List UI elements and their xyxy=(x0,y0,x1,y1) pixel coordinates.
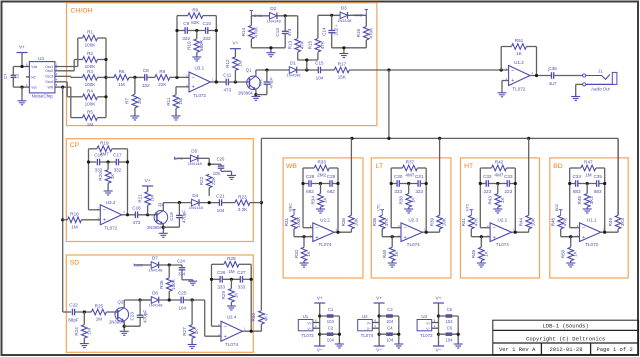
svg-text:HT: HT xyxy=(464,163,473,170)
ground (U1) xyxy=(335,344,344,348)
IC U4 NoiseChip xyxy=(29,56,55,98)
svg-text:TL072: TL072 xyxy=(585,242,598,247)
svg-text:R30: R30 xyxy=(251,313,256,322)
svg-text:+: + xyxy=(404,235,407,241)
wire R13 R15 bottoms xyxy=(298,52,318,70)
svg-text:WB: WB xyxy=(286,163,297,170)
svg-text:U2: U2 xyxy=(362,314,368,319)
svg-text:1N4148: 1N4148 xyxy=(148,268,163,273)
svg-text:U1: U1 xyxy=(303,314,309,319)
diode D1 1N4148 xyxy=(286,60,301,77)
resistor R50 xyxy=(561,237,578,263)
svg-text:Ver 1 Rev A: Ver 1 Rev A xyxy=(499,346,536,353)
wire Vss rail xyxy=(13,77,24,87)
ground (R45) xyxy=(477,263,486,267)
svg-text:C1: C1 xyxy=(328,307,334,312)
svg-text:15K: 15K xyxy=(338,75,347,80)
svg-text:−: − xyxy=(224,324,227,330)
resistor R12 xyxy=(225,49,242,82)
wire Osc2 to R2 xyxy=(58,60,83,71)
svg-text:LT: LT xyxy=(376,163,383,170)
svg-text:68pF: 68pF xyxy=(68,317,79,322)
svg-text:332: 332 xyxy=(114,167,122,172)
svg-text:3K3: 3K3 xyxy=(589,196,594,205)
wire R23 to bus xyxy=(250,202,262,204)
svg-text:100K: 100K xyxy=(85,43,97,48)
svg-text:C22: C22 xyxy=(69,303,78,308)
svg-text:R19: R19 xyxy=(100,140,109,145)
wire U3.1 noninverting to R11 xyxy=(176,87,189,95)
svg-text:R28: R28 xyxy=(227,256,236,261)
svg-text:1K: 1K xyxy=(394,250,399,257)
svg-text:CH/OH: CH/OH xyxy=(71,8,93,15)
svg-text:V−: V− xyxy=(376,347,382,353)
svg-text:104: 104 xyxy=(386,337,394,342)
capacitor C19 xyxy=(169,203,187,228)
svg-text:104: 104 xyxy=(446,319,454,324)
diode D5 1N4148 xyxy=(188,149,203,166)
svg-text:104: 104 xyxy=(327,319,335,324)
wire R6 to C8 xyxy=(129,76,145,78)
svg-text:R2: R2 xyxy=(87,51,93,56)
V- symbol (U1) xyxy=(314,346,325,353)
resistor R40 xyxy=(382,237,399,263)
junction noise line CP tap xyxy=(61,218,64,221)
wire J1 sleeve to ground xyxy=(576,84,583,96)
svg-text:LTC: LTC xyxy=(377,204,381,211)
V- symbol (U3) xyxy=(433,346,444,353)
svg-text:22K: 22K xyxy=(211,176,216,185)
svg-text:Page 1 of 2: Page 1 of 2 xyxy=(596,346,632,353)
wire D2 bottom row xyxy=(251,48,285,53)
svg-text:C16: C16 xyxy=(94,153,103,158)
svg-text:R25: R25 xyxy=(95,304,104,309)
svg-text:R10: R10 xyxy=(187,41,192,50)
wire D1 to C15 node xyxy=(297,69,318,71)
svg-text:R14: R14 xyxy=(241,28,246,37)
svg-text:+: + xyxy=(582,235,585,241)
wire C27 right xyxy=(243,278,252,280)
svg-text:R47: R47 xyxy=(584,160,593,165)
svg-text:U3: U3 xyxy=(421,314,427,319)
svg-text:C9: C9 xyxy=(183,21,189,26)
junction U1 gnd rail xyxy=(338,333,341,336)
junction R10 tap xyxy=(195,29,198,32)
svg-text:R27: R27 xyxy=(182,327,187,336)
capacitor C14 (2u2) xyxy=(322,15,339,48)
transistor Q1 2N3904 xyxy=(238,68,260,96)
capacitor C28 xyxy=(306,174,315,194)
svg-text:V+: V+ xyxy=(367,322,371,326)
svg-text:C12: C12 xyxy=(257,78,262,86)
capacitor C27 xyxy=(237,270,246,290)
svg-text:1K: 1K xyxy=(411,197,416,204)
wire Q3 collector xyxy=(124,300,151,308)
svg-text:TL072: TL072 xyxy=(104,226,117,231)
junction R22 top xyxy=(208,163,211,166)
resistor R46 xyxy=(551,215,568,236)
ground (C20) xyxy=(227,175,236,179)
capacitor C13 xyxy=(275,16,292,48)
ground (R11) xyxy=(172,116,181,120)
junction R32 tap xyxy=(302,235,305,238)
resistor R43 xyxy=(488,184,505,210)
capacitor C29 xyxy=(327,174,336,194)
svg-text:104: 104 xyxy=(316,75,324,80)
svg-text:U2.1: U2.1 xyxy=(497,218,507,223)
svg-text:R37: R37 xyxy=(406,160,415,165)
junction R50 tap xyxy=(569,235,572,238)
svg-text:TL074: TL074 xyxy=(225,342,238,347)
svg-text:Q1: Q1 xyxy=(246,68,252,73)
junction bus LT xyxy=(438,137,441,140)
wire C9 to C10 xyxy=(188,30,206,32)
svg-text:C6: C6 xyxy=(447,325,453,330)
wire R8 to U3.1 xyxy=(170,76,189,78)
ground (D2 branch) xyxy=(266,53,275,57)
capacitor C25 xyxy=(178,291,187,311)
diode D3 1N4148 xyxy=(337,6,352,23)
svg-text:R35: R35 xyxy=(341,217,346,226)
svg-text:105: 105 xyxy=(213,171,221,176)
ground (noise chip) xyxy=(18,101,27,105)
resistor R28 xyxy=(224,256,239,274)
svg-text:3.3K: 3.3K xyxy=(238,207,248,212)
svg-text:R39: R39 xyxy=(429,217,434,226)
transistor Q3 2N3904 xyxy=(109,299,129,324)
svg-text:C7: C7 xyxy=(3,73,8,79)
ground (R32) xyxy=(300,263,309,267)
junction U1.2 output xyxy=(535,74,538,77)
junction D3 gnd xyxy=(342,46,345,49)
wire D7 to C24 xyxy=(159,264,182,266)
junction U3.1 output rail xyxy=(215,80,218,83)
svg-text:473: 473 xyxy=(223,87,231,92)
wire C8 to R8 xyxy=(147,76,155,78)
op-amp U3.1 xyxy=(186,66,214,98)
net stub OHC xyxy=(250,11,263,19)
junction R45 tap xyxy=(480,235,483,238)
wire U1 decoupling rungs xyxy=(320,316,340,344)
junction U2 V- branch xyxy=(378,333,381,336)
svg-text:1M: 1M xyxy=(228,269,235,274)
resistor R4 xyxy=(83,89,98,107)
ground (U1.2) xyxy=(498,93,507,97)
wire U2.1 feedback rails xyxy=(480,168,515,232)
wire C17 right xyxy=(119,161,128,163)
svg-text:R31: R31 xyxy=(284,217,289,226)
wire R9 to right rail xyxy=(203,16,217,82)
svg-text:1K: 1K xyxy=(483,250,488,257)
svg-text:V−: V− xyxy=(308,327,312,331)
wire U1 power rail xyxy=(319,303,321,346)
capacitor C20 xyxy=(213,156,232,176)
wire U2.3 feedback rails xyxy=(391,168,426,232)
junction U2.3 output rail xyxy=(425,231,428,234)
resistor R13 xyxy=(288,39,305,53)
resistor R23 xyxy=(235,194,250,212)
resistor R29 xyxy=(221,279,238,306)
svg-text:NC: NC xyxy=(31,75,36,79)
svg-text:1M: 1M xyxy=(118,82,125,87)
svg-text:+: + xyxy=(315,235,318,241)
svg-text:R42: R42 xyxy=(495,160,504,165)
svg-text:Osc3: Osc3 xyxy=(45,75,53,79)
wire C36 to J1 xyxy=(554,75,582,77)
wire Q3 emitter to ground xyxy=(123,321,125,331)
net stub BDC xyxy=(555,203,562,215)
wire D4 to C21 xyxy=(199,202,219,204)
svg-text:C13: C13 xyxy=(275,28,280,37)
junction bus CP xyxy=(260,201,263,204)
junction Q1 emitter C12 xyxy=(254,93,257,96)
svg-text:1M: 1M xyxy=(87,122,94,127)
junction U1.2 input xyxy=(500,68,503,71)
capacitor C4 xyxy=(386,325,394,342)
wire Q2 emitter to ground xyxy=(162,224,164,233)
junction U2.3 rail0 caps xyxy=(390,182,393,185)
svg-text:C33: C33 xyxy=(504,174,513,179)
svg-text:TL074: TL074 xyxy=(361,333,374,338)
capacitor C33 xyxy=(504,174,513,194)
junction R22 bottom xyxy=(208,201,211,204)
svg-text:Audio Out: Audio Out xyxy=(591,86,610,91)
ground (R38) xyxy=(404,209,413,213)
svg-text:4K7: 4K7 xyxy=(263,313,268,322)
junction rail C17 xyxy=(126,160,129,163)
capacitor C18 xyxy=(132,206,141,226)
junction D1 node xyxy=(305,68,308,71)
connector J1 Audio Out xyxy=(583,68,617,91)
capacitor C24 xyxy=(177,258,193,281)
resistor R16 xyxy=(356,15,373,48)
svg-text:R7: R7 xyxy=(125,98,130,104)
svg-text:−: − xyxy=(315,225,318,231)
svg-text:104: 104 xyxy=(178,305,186,310)
capacitor C17 xyxy=(113,153,122,173)
wire R17 to mixer xyxy=(349,69,508,71)
svg-text:C29: C29 xyxy=(327,174,336,179)
junction V+ Vdd xyxy=(20,65,23,68)
junction U1.1 output rail xyxy=(603,231,606,234)
junction C23 tap xyxy=(139,298,142,301)
svg-text:D1: D1 xyxy=(290,60,296,65)
resistor R30 xyxy=(251,311,268,325)
net stub HTC xyxy=(466,203,473,215)
resistor R5 xyxy=(83,109,98,127)
wire U3.2 feedback left rail xyxy=(89,149,101,210)
wire R15 top rail xyxy=(318,15,340,38)
svg-text:333: 333 xyxy=(238,285,246,290)
svg-text:2u2: 2u2 xyxy=(334,27,339,35)
junction right rail C10 xyxy=(215,29,218,32)
svg-text:Copyright (C) Deltronics: Copyright (C) Deltronics xyxy=(526,335,605,342)
V+ symbol (noise chip) xyxy=(17,45,28,53)
svg-text:470K: 470K xyxy=(253,26,258,38)
wire ladder bus xyxy=(98,38,107,118)
wire U2.1 output xyxy=(512,231,529,233)
svg-text:D7: D7 xyxy=(152,255,158,260)
capacitor C2 xyxy=(327,325,335,342)
svg-text:470K: 470K xyxy=(368,27,373,39)
wire mixer feedback rail xyxy=(501,47,536,76)
diode D6 1N4148 xyxy=(148,290,163,307)
junction U2.3 rail1 caps xyxy=(425,182,428,185)
junction bus HT xyxy=(527,137,530,140)
resistor R24 xyxy=(74,312,91,344)
svg-text:1K: 1K xyxy=(306,250,311,257)
ground (R20) xyxy=(104,191,113,195)
svg-text:−: − xyxy=(404,225,407,231)
svg-text:C24: C24 xyxy=(177,258,185,263)
wire U2 power rail xyxy=(378,303,380,346)
svg-text:C35: C35 xyxy=(593,174,602,179)
svg-text:R45: R45 xyxy=(471,249,476,258)
svg-text:R9: R9 xyxy=(192,7,198,12)
svg-text:SD: SD xyxy=(70,260,80,267)
resistor R38 xyxy=(399,184,416,210)
junction U1.1 rail0 caps xyxy=(568,182,571,185)
junction left rail C9 xyxy=(175,29,178,32)
svg-text:1K: 1K xyxy=(500,197,505,204)
svg-text:V+: V+ xyxy=(435,295,441,301)
wire C26 C27 xyxy=(222,278,240,280)
svg-text:TL072: TL072 xyxy=(193,93,206,98)
svg-text:Osc2: Osc2 xyxy=(45,69,53,73)
wire U2.4 output xyxy=(242,324,261,331)
wire U2.3 output xyxy=(422,231,439,233)
svg-text:1N4148: 1N4148 xyxy=(148,303,163,308)
junction ladder bus R3 xyxy=(104,76,107,79)
junction R24 tap xyxy=(83,310,86,313)
svg-text:1M: 1M xyxy=(86,328,91,335)
wire D2 to R13 rail xyxy=(277,16,298,38)
ground (Q1) xyxy=(251,96,260,100)
op-amp U3.2 xyxy=(97,200,125,231)
resistor R32 xyxy=(294,237,311,263)
ground (J1) xyxy=(571,97,580,101)
svg-text:C11: C11 xyxy=(223,73,232,78)
capacitor C35 xyxy=(593,174,602,194)
capacitor C7 xyxy=(3,73,20,79)
svg-text:47K: 47K xyxy=(320,40,325,49)
svg-text:CP: CP xyxy=(70,142,80,149)
junction U2.4 output rail xyxy=(250,330,253,333)
V- symbol (U2) xyxy=(374,346,385,353)
junction U1 V- branch xyxy=(318,333,321,336)
svg-text:R38: R38 xyxy=(399,196,404,205)
junction bus WB xyxy=(350,137,353,140)
junction C19 tap xyxy=(178,201,181,204)
resistor R3 xyxy=(83,69,98,87)
ground (R50) xyxy=(566,263,575,267)
svg-text:1K: 1K xyxy=(194,328,199,335)
junction C14 tap xyxy=(330,14,333,17)
svg-text:Vdd: Vdd xyxy=(31,65,37,69)
section box SD xyxy=(66,255,253,352)
net stub WBC xyxy=(288,203,295,215)
svg-text:TL072: TL072 xyxy=(301,333,314,338)
wire R25 to Q3 base xyxy=(106,311,117,313)
V+ symbol (U1) xyxy=(314,295,325,303)
svg-text:C32: C32 xyxy=(483,174,492,179)
junction D2 gnd xyxy=(269,46,272,49)
junction R13 R15 bottom xyxy=(305,58,308,61)
junction right rail caps xyxy=(250,278,253,281)
capacitor C36 (4u7) xyxy=(547,66,557,86)
svg-text:1M: 1M xyxy=(137,98,142,105)
svg-text:1N4148: 1N4148 xyxy=(337,18,352,23)
svg-text:C19: C19 xyxy=(169,212,174,221)
junction R26 top xyxy=(168,263,171,266)
svg-text:R29: R29 xyxy=(221,291,226,300)
junction U3.2 output rail xyxy=(126,213,129,216)
junction U3.1 inverting input xyxy=(175,76,178,79)
junction U1.1 R-mid tap xyxy=(586,182,589,185)
wire U2.4 feedback left rail xyxy=(212,264,224,326)
op-amp U1.1 xyxy=(577,218,605,247)
ground (R48) xyxy=(583,209,592,213)
svg-text:332: 332 xyxy=(95,167,103,172)
svg-text:560R: 560R xyxy=(199,39,204,51)
svg-text:C21: C21 xyxy=(216,193,225,198)
junction U1.1 rail1 caps xyxy=(603,182,606,185)
ground (U3) xyxy=(454,344,463,348)
capacitor C31 xyxy=(415,174,424,194)
resistor R33 xyxy=(314,160,329,178)
svg-text:Q3: Q3 xyxy=(118,299,124,304)
svg-text:R33: R33 xyxy=(317,160,326,165)
junction WN noise tap xyxy=(61,86,64,89)
svg-text:22K: 22K xyxy=(158,82,167,87)
junction Vss gnd xyxy=(20,86,23,89)
svg-text:CPC: CPC xyxy=(175,157,183,161)
svg-text:C4: C4 xyxy=(387,325,393,330)
svg-text:+: + xyxy=(224,334,227,340)
svg-text:C34: C34 xyxy=(572,174,581,179)
svg-text:U2.4: U2.4 xyxy=(227,314,237,319)
svg-text:R23: R23 xyxy=(238,194,247,199)
resistor R22 xyxy=(199,174,216,196)
wire C21 to R23 xyxy=(222,202,235,204)
svg-text:1M: 1M xyxy=(96,317,103,322)
junction C12 tap xyxy=(265,68,268,71)
net stub HHC xyxy=(365,10,369,16)
ground (U2) xyxy=(394,344,403,348)
wire U1.1 noninverting row xyxy=(561,236,580,238)
resistor R9 xyxy=(188,7,203,25)
svg-text:−: − xyxy=(511,68,514,74)
resistor R11 xyxy=(166,95,183,116)
svg-text:1K: 1K xyxy=(233,292,238,299)
resistor R31 xyxy=(284,215,301,236)
svg-text:223: 223 xyxy=(483,189,491,194)
junction R20 tap xyxy=(107,160,110,163)
net stub LTC xyxy=(377,204,384,215)
svg-text:U1.1: U1.1 xyxy=(587,218,597,223)
svg-text:683: 683 xyxy=(594,189,602,194)
svg-text:R44: R44 xyxy=(519,217,524,226)
capacitor C16 xyxy=(94,153,103,173)
section box CH/OH xyxy=(67,3,377,126)
wire Osc1 to R1 xyxy=(58,38,83,67)
resistor R21 xyxy=(137,186,154,215)
svg-text:D4: D4 xyxy=(192,193,198,198)
V+ symbol (R12) xyxy=(230,41,241,49)
junction U2.2 output rail xyxy=(336,231,339,234)
svg-text:BD: BD xyxy=(553,163,563,170)
svg-text:C30: C30 xyxy=(394,174,403,179)
